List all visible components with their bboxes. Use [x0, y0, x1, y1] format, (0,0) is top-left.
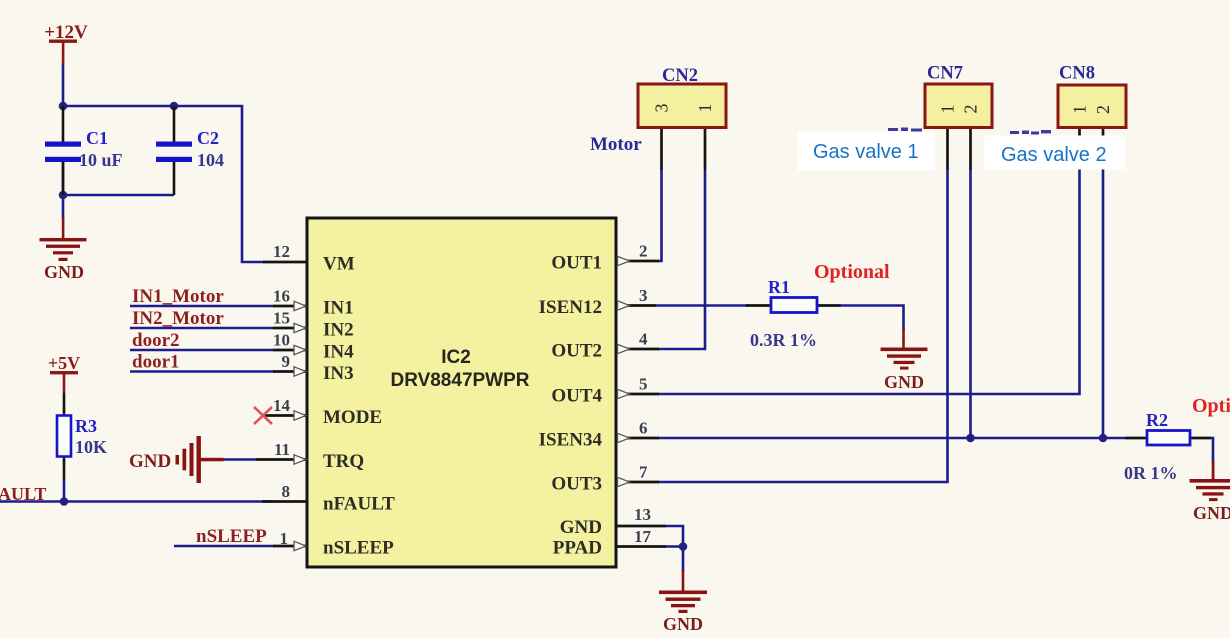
pin 16 IN1: [273, 287, 307, 311]
annotation box Gas valve 2: [984, 136, 1125, 170]
node junction ISEN34/CN7 pin2: [966, 434, 975, 443]
svg-text:16: 16: [273, 287, 290, 306]
svg-text:Gas valve 2: Gas valve 2: [1001, 144, 1107, 166]
wire OUT2 to CN2 pin1: [658, 170, 705, 349]
pin 4 OUT2: [616, 330, 659, 354]
pin 8 nFAULT: [262, 482, 307, 502]
svg-text:VM: VM: [323, 254, 355, 275]
wire GND pin13 down: [665, 526, 683, 547]
capacitor C1: [45, 106, 123, 195]
pin 6 ISEN34: [616, 419, 659, 443]
svg-text:door1: door1: [132, 352, 180, 373]
svg-text:CN2: CN2: [662, 66, 698, 86]
svg-text:AULT: AULT: [0, 484, 46, 504]
annotation box Gas valve 1: [798, 132, 935, 171]
svg-text:IN1_Motor: IN1_Motor: [132, 286, 224, 307]
pin 1 nSLEEP: [273, 529, 307, 551]
power +12V: [44, 22, 88, 65]
ground GND at R1: [881, 328, 928, 392]
svg-text:10 uF: 10 uF: [79, 150, 123, 170]
svg-text:OUT1: OUT1: [551, 253, 602, 274]
node junction C1 bottom: [59, 191, 68, 200]
capacitor C2: [156, 106, 224, 195]
svg-text:2: 2: [1093, 105, 1113, 114]
svg-text:IN2: IN2: [323, 320, 354, 341]
svg-text:Gas valve 1: Gas valve 1: [813, 141, 919, 163]
ground GND left-facing at TRQ: [129, 436, 224, 483]
svg-text:R1: R1: [768, 277, 790, 297]
svg-text:IN4: IN4: [323, 342, 354, 363]
svg-text:OUT4: OUT4: [551, 386, 602, 407]
wire OUT3 to CN7 pin1: [658, 170, 948, 482]
resistor R1: [746, 277, 841, 350]
ground GND at R2: [1190, 461, 1230, 523]
svg-text:ISEN34: ISEN34: [539, 430, 603, 451]
pin 10 IN4: [273, 331, 307, 355]
svg-text:CN8: CN8: [1059, 64, 1095, 84]
pin 9 IN3: [273, 352, 307, 376]
svg-text:ISEN12: ISEN12: [539, 297, 602, 318]
pin 15 IN2: [273, 309, 307, 333]
node junction +12V/C2: [170, 102, 179, 111]
svg-text:12: 12: [273, 242, 290, 261]
svg-text:IN2_Motor: IN2_Motor: [132, 308, 224, 329]
svg-text:11: 11: [274, 440, 290, 459]
svg-text:Optional: Optional: [1192, 395, 1230, 417]
svg-text:3: 3: [652, 104, 672, 113]
svg-text:R3: R3: [75, 416, 97, 436]
IC2 right pin names: [539, 253, 603, 559]
svg-text:CN7: CN7: [927, 64, 963, 84]
pin 3 ISEN12: [616, 286, 656, 310]
svg-text:0.3R 1%: 0.3R 1%: [750, 330, 817, 350]
svg-text:TRQ: TRQ: [323, 451, 364, 472]
svg-text:17: 17: [634, 527, 652, 546]
pin 2 OUT1: [616, 242, 659, 266]
svg-text:GND: GND: [1193, 503, 1230, 523]
wire C1-C2 bottom link: [63, 162, 174, 219]
connector CN7: [925, 64, 992, 439]
pin 14 MODE no-connect: [254, 396, 307, 424]
svg-text:Motor: Motor: [590, 134, 642, 155]
node junction +12V/C1: [59, 102, 68, 111]
svg-text:2: 2: [639, 242, 648, 261]
wire R1 to ground: [840, 306, 904, 331]
svg-text:3: 3: [639, 286, 648, 305]
svg-text:MODE: MODE: [323, 407, 382, 428]
pin 11 TRQ: [256, 440, 307, 464]
wire R2 to ground: [1210, 438, 1213, 463]
svg-text:10: 10: [273, 331, 290, 350]
svg-text:13: 13: [634, 505, 651, 524]
pin 5 OUT4: [616, 375, 659, 399]
svg-text:15: 15: [273, 309, 290, 328]
svg-text:nSLEEP: nSLEEP: [323, 538, 394, 559]
wire nFAULT net: [0, 500, 273, 503]
svg-text:GND: GND: [560, 517, 602, 538]
svg-text:2: 2: [961, 105, 981, 114]
node junction R3/nFAULT: [60, 497, 69, 506]
svg-text:14: 14: [273, 396, 291, 415]
wire IN1: [130, 305, 274, 308]
svg-text:GND: GND: [129, 451, 171, 472]
svg-text:OUT3: OUT3: [551, 474, 602, 495]
svg-text:IC2: IC2: [441, 347, 471, 368]
op IC2 body DRV8847PWPR: [307, 218, 616, 567]
wire TRQ: [223, 458, 256, 461]
svg-text:+5V: +5V: [48, 353, 80, 373]
svg-text:nFAULT: nFAULT: [323, 494, 395, 515]
wire ISEN12 to R1: [655, 304, 748, 307]
svg-text:9: 9: [282, 352, 291, 371]
wire PPAD pin17 to ground: [665, 547, 683, 573]
svg-text:6: 6: [639, 419, 648, 438]
connector CN8: [1058, 64, 1126, 439]
wire nSLEEP: [174, 545, 274, 548]
hidden net label fragment near CN7: [888, 128, 922, 132]
pin 13 GND: [616, 505, 666, 526]
wire IN2: [130, 327, 274, 330]
resistor R2: [1124, 410, 1211, 483]
power +5V: [48, 353, 80, 394]
svg-text:1: 1: [938, 105, 958, 114]
svg-text:Optional: Optional: [814, 261, 890, 283]
svg-text:0R 1%: 0R 1%: [1124, 463, 1178, 483]
svg-text:1: 1: [1070, 105, 1090, 114]
wire ISEN34 to R2: [658, 437, 1125, 440]
svg-text:door2: door2: [132, 330, 180, 351]
ground GND below IC2: [659, 570, 707, 634]
pin 17 PPAD: [616, 527, 666, 547]
node junction pin13/pin17: [679, 542, 688, 551]
svg-text:IN3: IN3: [323, 363, 354, 384]
svg-text:C1: C1: [86, 128, 108, 148]
svg-text:GND: GND: [884, 372, 924, 392]
hidden net label fragment near CN8: [1010, 130, 1051, 135]
svg-text:OUT2: OUT2: [551, 341, 602, 362]
svg-text:R2: R2: [1146, 410, 1168, 430]
wire +12V rail top horizontal: [63, 64, 264, 262]
svg-text:7: 7: [639, 463, 648, 482]
svg-text:PPAD: PPAD: [553, 538, 602, 559]
node junction ISEN34/CN8 pin2: [1099, 434, 1108, 443]
svg-text:IN1: IN1: [323, 298, 354, 319]
svg-text:1: 1: [695, 104, 715, 113]
pin 7 OUT3: [616, 463, 659, 487]
svg-text:GND: GND: [44, 262, 84, 282]
svg-text:10K: 10K: [75, 437, 107, 457]
IC2 left pin names: [323, 254, 395, 559]
svg-text:1: 1: [280, 529, 289, 548]
wire OUT4 to CN8 pin1: [658, 170, 1080, 394]
svg-text:GND: GND: [663, 614, 703, 634]
svg-text:4: 4: [639, 330, 648, 349]
wire IN3: [130, 370, 274, 373]
svg-text:nSLEEP: nSLEEP: [196, 526, 267, 547]
svg-text:8: 8: [282, 482, 291, 501]
resistor R3: [57, 393, 107, 502]
svg-text:DRV8847PWPR: DRV8847PWPR: [390, 370, 529, 391]
connector CN2: [638, 66, 726, 170]
pin 12 VM: [263, 242, 307, 262]
ground GND below C1: [40, 217, 87, 282]
svg-text:104: 104: [197, 150, 224, 170]
svg-text:5: 5: [639, 375, 648, 394]
svg-text:C2: C2: [197, 128, 219, 148]
wire OUT1 to CN2 pin3: [658, 170, 662, 261]
wire IN4: [130, 349, 274, 352]
